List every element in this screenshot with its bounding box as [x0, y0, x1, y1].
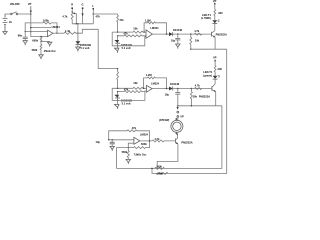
resistor 560k (osc2) [122, 148, 130, 160]
osc2 box wires [117, 148, 129, 169]
svg-text:1N4148: 1N4148 [173, 28, 183, 32]
potentiometer 4.7k body [62, 12, 73, 24]
svg-text:(47R/1W): (47R/1W) [159, 119, 169, 122]
svg-text:4.7k: 4.7k [194, 29, 200, 33]
osc2 output 47k [140, 137, 176, 142]
wire LED1 to Q1 collector [214, 23, 216, 30]
capacitor 68n [18, 32, 28, 41]
svg-text:VP: VP [180, 115, 184, 119]
svg-text:25kHz Osc: 25kHz Osc [44, 50, 57, 53]
outer rail (right) [156, 49, 227, 173]
junction output osc1 [56, 33, 57, 34]
junction [77, 33, 78, 34]
inner rail (right) [117, 106, 222, 169]
svg-text:560k: 560k [32, 48, 38, 52]
wire LED2 to Q2 collector [214, 79, 216, 84]
resistor 4.7k (Q1 base) [194, 29, 202, 35]
svg-text:1.2M: 1.2M [146, 73, 152, 77]
op-amp U1c LM324 [146, 81, 159, 92]
wire to ground (osc1 right) [41, 40, 50, 42]
svg-text:10µ: 10µ [171, 39, 176, 43]
transistor Q3 PN2222A [175, 134, 192, 144]
wire osc1 output [53, 32, 64, 34]
wire op-amp C output [152, 88, 169, 90]
resistor 4.7k (Q2 base) [195, 84, 202, 90]
svg-text:1.2M: 1.2M [145, 18, 151, 22]
LED L2 [203, 70, 220, 79]
terminal G [82, 2, 84, 24]
resistor 10k (Q1 base-emitter) [190, 34, 200, 50]
wire VP arrow (LED1) [213, 0, 217, 9]
svg-text:1N4148: 1N4148 [170, 82, 180, 86]
stage2 input resistor (vertical) [117, 68, 119, 88]
resistor 100k (outer rail) [152, 168, 168, 175]
osc2 + input path [128, 143, 134, 147]
svg-text:5.1 volt: 5.1 volt [80, 46, 89, 50]
zener 1N5231B (C) [114, 92, 132, 106]
stage2 wire with 47k [118, 88, 145, 93]
svg-text:4.7k: 4.7k [154, 137, 160, 141]
ground (zener A) [117, 46, 119, 48]
op-amp U1b LM324 [146, 26, 159, 38]
svg-text:100k: 100k [157, 171, 163, 175]
svg-text:4.7k: 4.7k [62, 14, 68, 18]
svg-text:10µ: 10µ [96, 140, 101, 144]
capacitor 10u (stage2) [165, 89, 181, 106]
svg-text:330: 330 [218, 67, 223, 71]
svg-text:10k: 10k [195, 38, 200, 42]
resistor 330 (LED1) [214, 9, 223, 20]
wire buzzer to Q3 collector [176, 133, 178, 135]
wire D2 to Q2 base [173, 88, 212, 90]
diode 1N4148 (D2) [169, 82, 180, 90]
ground (cap osc2) [110, 146, 114, 151]
svg-text:47k: 47k [124, 88, 129, 92]
svg-text:68n: 68n [18, 33, 23, 37]
svg-text:47k: 47k [123, 32, 128, 36]
svg-text:10k: 10k [193, 95, 198, 99]
svg-text:PN2222A: PN2222A [216, 32, 227, 36]
svg-text:ON-OFF: ON-OFF [10, 2, 20, 6]
resistor 1.4k [64, 29, 78, 34]
stage2 wire (- input) with 10k [112, 81, 146, 89]
resistor 330 (LED2) [214, 66, 222, 76]
wire (osc1 upper) [31, 27, 51, 29]
ground (cap stage1) [176, 44, 180, 49]
wire L to 47k [93, 13, 117, 15]
svg-text:4.7k: 4.7k [195, 84, 201, 88]
svg-text:1.4k: 1.4k [65, 29, 71, 33]
stage1 wire with 47k zigzag [118, 32, 146, 37]
op-amp U1a LM324 [48, 25, 61, 36]
resistor 1.2M feedback (stage2) [143, 73, 167, 89]
wire VP down to osc1 + input [31, 14, 48, 37]
svg-text:600k: 600k [32, 38, 38, 42]
transistor Q1 PN2222A [212, 31, 227, 38]
buzzer [159, 119, 183, 133]
svg-text:100k: 100k [156, 164, 162, 168]
svg-text:47k: 47k [132, 126, 137, 130]
svg-text:47k: 47k [96, 14, 101, 18]
svg-text:PN2222A: PN2222A [199, 95, 210, 99]
resistor 100k (inner rail) [155, 164, 165, 169]
osc2 - input wire [109, 139, 134, 141]
potentiometer 4.7k terminal R [71, 2, 73, 13]
svg-text:7.8kHz Osc: 7.8kHz Osc [134, 153, 147, 156]
svg-text:LED.T1: LED.T1 [202, 13, 211, 17]
transistor Q2 PN2222A [199, 84, 216, 99]
ground (560k) [126, 159, 130, 164]
svg-text:5.1 volt: 5.1 volt [122, 46, 131, 50]
svg-text:R: R [71, 2, 73, 6]
switch S1 ON-OFF [5, 2, 31, 15]
osc1 inverting input wire [25, 31, 47, 33]
ground (battery) [3, 29, 7, 35]
ground (zener C) [117, 100, 119, 104]
zener 1N5231B (A) [114, 36, 132, 50]
svg-text:100k: 100k [43, 19, 49, 23]
resistor 600k (osc1) [32, 36, 42, 43]
terminal L [92, 4, 94, 24]
diode 1N4148 (D1) [169, 28, 183, 36]
svg-text:LM324: LM324 [140, 133, 149, 137]
svg-text:LED.T1: LED.T1 [203, 70, 212, 74]
stage2 bottom rail [178, 92, 222, 106]
ground (zener B) [76, 47, 80, 52]
ground (560k osc1) [39, 55, 43, 60]
ground (cap 68n) [23, 41, 27, 46]
junction bottom rail [151, 168, 153, 170]
resistor 47k vertical [117, 14, 124, 32]
stage1 wire (- input) with 10k [112, 26, 146, 33]
svg-text:5.1 volt: 5.1 volt [122, 102, 131, 106]
resistor 1.2M feedback [143, 18, 166, 34]
wire D1 to Q1 base [173, 33, 212, 35]
VP arrow (LED2) [213, 56, 217, 66]
svg-text:LM324: LM324 [150, 26, 159, 30]
capacitor 10u (osc2) [96, 140, 115, 147]
wire op-amp B output [152, 33, 169, 35]
svg-text:G: G [82, 2, 84, 6]
svg-text:PN2222A: PN2222A [181, 140, 192, 144]
svg-text:47k: 47k [119, 18, 124, 22]
resistor 100k feedback osc1 [25, 19, 57, 34]
VP arrow (buzzer) [175, 105, 184, 120]
resistor 560k (osc1) [32, 41, 42, 54]
svg-text:(L 5WD): (L 5WD) [201, 16, 211, 20]
svg-text:600k: 600k [141, 142, 147, 146]
svg-text:LM324: LM324 [52, 25, 61, 29]
LED L1 [201, 13, 220, 24]
capacitor 10u (stage1) [171, 34, 181, 44]
pot bottom rail [72, 23, 93, 25]
svg-text:LM324: LM324 [151, 81, 160, 85]
battery B1 9v [3, 14, 13, 29]
svg-text:10k: 10k [133, 81, 138, 85]
resistor 10k (Q2) [190, 89, 197, 106]
stage1 box wires [112, 32, 146, 46]
op-amp U1d LM324 [134, 133, 149, 145]
svg-text:560k: 560k [122, 150, 128, 154]
Q1 emitter to rail [191, 37, 227, 49]
svg-text:VP: VP [28, 2, 32, 6]
osc2 feedback 47k [109, 126, 150, 141]
svg-text:10µ: 10µ [165, 92, 170, 96]
svg-text:10k: 10k [133, 26, 138, 30]
zener 1N5231B (B) [76, 24, 92, 50]
stage2 box wires [112, 88, 146, 100]
wire to stage2 feed [78, 29, 118, 68]
svg-text:(green): (green) [203, 73, 212, 77]
Q3 emitter path [157, 144, 178, 168]
ground (osc1 right) [48, 41, 52, 46]
resistor 600k (osc2) [128, 141, 149, 149]
node VP (top-left) [28, 2, 32, 15]
svg-text:VP: VP [213, 56, 217, 60]
pot wiper [73, 12, 76, 23]
svg-text:330: 330 [218, 11, 223, 15]
